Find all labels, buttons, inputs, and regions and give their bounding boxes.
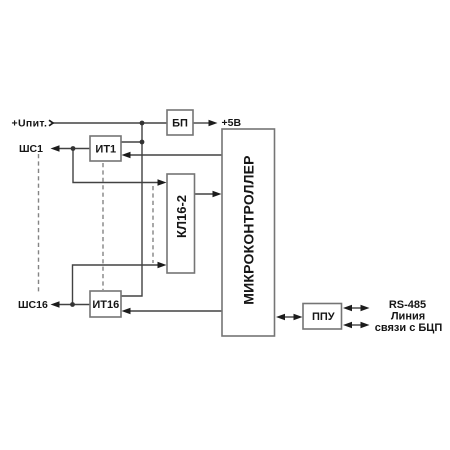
svg-text:ШС1: ШС1	[19, 143, 43, 155]
svg-text:БП: БП	[172, 117, 188, 129]
svg-text:+5В: +5В	[222, 117, 242, 129]
svg-text:КЛ16-2: КЛ16-2	[174, 195, 189, 238]
svg-text:МИКРОКОНТРОЛЛЕР: МИКРОКОНТРОЛЛЕР	[241, 155, 257, 304]
svg-text:ППУ: ППУ	[312, 311, 335, 323]
svg-text:ШС16: ШС16	[18, 299, 48, 311]
svg-text:RS-485: RS-485	[389, 299, 426, 311]
svg-text:связи с БЦП: связи с БЦП	[375, 322, 443, 334]
svg-text:ИТ1: ИТ1	[95, 143, 116, 155]
svg-text:ИТ16: ИТ16	[92, 299, 119, 311]
svg-text:+Uпит.: +Uпит.	[12, 118, 48, 130]
svg-text:Линия: Линия	[391, 311, 425, 323]
